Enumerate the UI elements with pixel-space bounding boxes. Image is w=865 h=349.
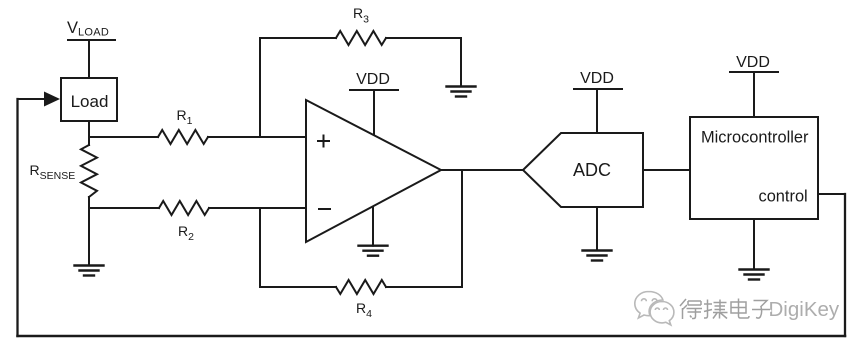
microcontroller ground wire xyxy=(753,219,755,270)
wire feedback arrow into load xyxy=(18,92,61,107)
ground at R3 xyxy=(447,87,476,97)
wire node to R1 xyxy=(89,136,158,138)
wire R3 top right xyxy=(386,38,461,87)
ground below RSENSE xyxy=(75,266,104,276)
wire control output xyxy=(818,193,845,195)
resistor R4 xyxy=(336,280,386,294)
wire R1 to opamp plus input xyxy=(208,136,306,138)
ground at opamp xyxy=(359,246,388,256)
wire control loop left vertical xyxy=(16,99,18,336)
resistor R1 xyxy=(158,130,208,144)
wire ADC to microcontroller xyxy=(643,169,690,171)
wire control loop bottom xyxy=(18,335,846,338)
svg-text:VDD: VDD xyxy=(736,54,770,71)
watermark char ZI xyxy=(753,302,771,320)
wire R4 right xyxy=(386,286,462,288)
load LOAD box xyxy=(61,78,117,121)
ADC ground wire xyxy=(596,207,598,251)
svg-text:control: control xyxy=(759,188,808,206)
ADC VDD terminal xyxy=(574,89,622,133)
microcontroller VDD terminal xyxy=(730,72,778,117)
op-amp U1 xyxy=(306,100,441,242)
svg-text:Load: Load xyxy=(71,92,109,111)
opamp VDD terminal xyxy=(350,90,398,134)
opamp plus marker xyxy=(318,136,329,147)
watermark char JIE xyxy=(705,301,729,320)
wire node2 to R2 xyxy=(89,207,159,209)
resistor RSENSE xyxy=(81,137,97,208)
wire node2 down xyxy=(88,208,90,266)
svg-text:ADC: ADC xyxy=(573,160,611,180)
svg-text:VDD: VDD xyxy=(356,71,390,88)
resistor R2 xyxy=(159,201,209,215)
svg-text:VDD: VDD xyxy=(580,70,614,87)
wire opamp output to ADC xyxy=(441,169,523,171)
svg-text:DigiKey: DigiKey xyxy=(769,298,840,321)
watermark text DigiKey xyxy=(770,300,841,323)
watermark char DE xyxy=(681,300,703,320)
wire R2 to opamp minus input xyxy=(209,207,306,209)
wire R3 left vertical xyxy=(259,38,261,137)
microcontroller U3 box xyxy=(690,117,818,219)
wire feedback right vertical xyxy=(461,170,463,287)
watermark wechat logo xyxy=(635,292,674,326)
resistor R3 xyxy=(336,31,386,45)
opamp ground wire xyxy=(372,207,374,246)
wire feedback left vertical xyxy=(259,208,261,287)
opamp minus marker xyxy=(319,208,330,210)
ground at ADC xyxy=(583,251,612,261)
watermark char DIAN xyxy=(732,300,750,320)
wire R3 top left xyxy=(260,37,336,39)
svg-text:Microcontroller: Microcontroller xyxy=(701,129,809,147)
node VLOAD terminal xyxy=(68,40,115,78)
wire control loop right vertical xyxy=(844,194,846,336)
wire R4 left xyxy=(260,286,336,288)
ground at microcontroller xyxy=(740,270,769,280)
wire load-to-node xyxy=(88,121,90,137)
ADC U2 xyxy=(523,133,643,207)
